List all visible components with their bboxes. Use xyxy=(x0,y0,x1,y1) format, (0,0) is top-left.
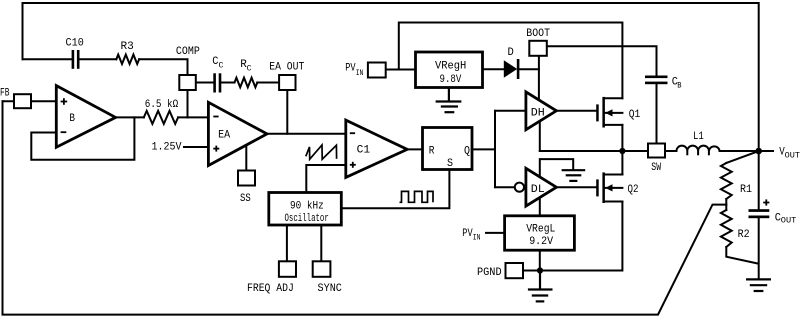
svg-text:R: R xyxy=(429,146,435,158)
svg-text:B: B xyxy=(69,113,75,125)
svg-text:SW: SW xyxy=(651,162,661,174)
svg-text:90 kHz: 90 kHz xyxy=(290,201,324,213)
svg-text:FB: FB xyxy=(0,88,10,100)
svg-text:DL: DL xyxy=(531,184,545,196)
svg-text:C: C xyxy=(219,62,224,71)
svg-text:BOOT: BOOT xyxy=(526,28,550,40)
svg-text:IN: IN xyxy=(473,233,481,242)
svg-text:PGND: PGND xyxy=(477,267,502,279)
svg-text:9.2V: 9.2V xyxy=(529,236,553,248)
svg-text:R2: R2 xyxy=(738,229,750,241)
svg-text:C10: C10 xyxy=(66,37,84,49)
svg-text:B: B xyxy=(677,81,681,90)
svg-text:DH: DH xyxy=(531,107,545,119)
svg-text:Oscillator: Oscillator xyxy=(285,213,329,225)
svg-text:COMP: COMP xyxy=(176,46,200,58)
svg-text:R3: R3 xyxy=(121,41,134,53)
svg-text:FREQ ADJ: FREQ ADJ xyxy=(247,283,294,295)
svg-text:IN: IN xyxy=(356,69,364,78)
svg-text:6.5 kΩ: 6.5 kΩ xyxy=(145,99,179,111)
svg-text:9.8V: 9.8V xyxy=(440,74,462,86)
svg-text:Q: Q xyxy=(464,145,470,157)
svg-text:L1: L1 xyxy=(693,131,704,143)
svg-text:S: S xyxy=(447,158,453,170)
svg-text:Q2: Q2 xyxy=(628,184,639,196)
svg-text:D: D xyxy=(508,47,515,59)
svg-text:C: C xyxy=(247,64,252,73)
svg-text:VRegL: VRegL xyxy=(526,224,555,236)
svg-text:OUT: OUT xyxy=(785,151,800,160)
svg-text:SYNC: SYNC xyxy=(318,283,343,295)
svg-text:Q1: Q1 xyxy=(629,109,641,121)
svg-text:PV: PV xyxy=(345,63,356,75)
svg-text:R1: R1 xyxy=(740,184,752,196)
svg-text:SS: SS xyxy=(240,193,251,205)
svg-text:EA OUT: EA OUT xyxy=(269,61,304,73)
svg-text:VRegH: VRegH xyxy=(435,61,466,73)
svg-text:EA: EA xyxy=(218,130,230,142)
svg-text:OUT: OUT xyxy=(781,217,797,226)
svg-text:1.25V: 1.25V xyxy=(152,142,182,154)
svg-text:PV: PV xyxy=(462,228,473,240)
svg-text:C1: C1 xyxy=(357,144,371,156)
